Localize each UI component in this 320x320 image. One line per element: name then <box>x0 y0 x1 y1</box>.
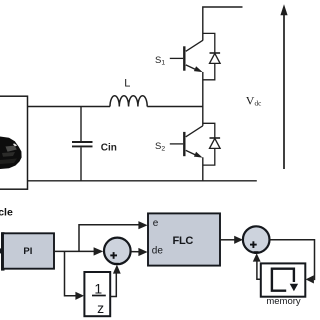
block memory <box>261 263 306 296</box>
wire: inductor to bridge midpoint <box>147 106 203 108</box>
svg-text:cle: cle <box>0 207 13 219</box>
top rail <box>203 7 243 41</box>
svg-text:1: 1 <box>94 281 102 297</box>
wire memory to sum2 (feedback up) <box>257 262 261 280</box>
wire: source box to inductor <box>28 106 111 108</box>
diode D2 loop <box>203 123 215 165</box>
S2 emitter to bottom rail <box>202 157 204 181</box>
wire FLC to sum2 <box>220 239 235 241</box>
vehicle photo <box>0 137 22 170</box>
sum junction 1 <box>104 238 131 265</box>
sum1 minus sign <box>114 263 119 265</box>
wire 1/z to sum1 <box>110 274 116 297</box>
svg-text:Cin: Cin <box>101 143 117 154</box>
diode D2 <box>210 138 221 148</box>
branch wire to FLC e input <box>79 225 140 252</box>
svg-text:de: de <box>152 246 164 257</box>
wire sum1 to FLC de input <box>131 251 140 253</box>
diode D1 <box>210 53 221 63</box>
wire PI to sum1 <box>54 250 95 252</box>
svg-text:L: L <box>124 77 130 89</box>
svg-text:FLC: FLC <box>173 235 194 247</box>
block FLC <box>148 213 220 265</box>
source box (fuel cell vehicle) <box>0 96 28 189</box>
sum2 minus sign <box>254 251 259 253</box>
bottom rail <box>28 180 257 182</box>
branch wire to 1/z input <box>65 251 77 295</box>
block 1/z <box>84 272 110 316</box>
IGBT S1 <box>170 40 203 72</box>
IGBT S2 <box>170 126 203 158</box>
bridge midpoint vertical <box>202 72 204 126</box>
svg-text:e: e <box>153 218 159 229</box>
svg-text:z: z <box>97 300 104 316</box>
sum junction 2 <box>243 226 270 253</box>
memory icon (loop arrow) <box>272 269 298 292</box>
svg-text:PI: PI <box>23 246 32 257</box>
inductor L <box>110 96 147 107</box>
Vdc arrow <box>280 4 287 169</box>
PI input stub <box>1 232 5 270</box>
diode D1 loop <box>203 33 215 79</box>
wire sum2 to memory (feedback loop right) <box>270 240 315 280</box>
capacitor Cin <box>72 107 93 182</box>
svg-text:memory: memory <box>266 296 301 307</box>
block PI <box>3 233 54 268</box>
